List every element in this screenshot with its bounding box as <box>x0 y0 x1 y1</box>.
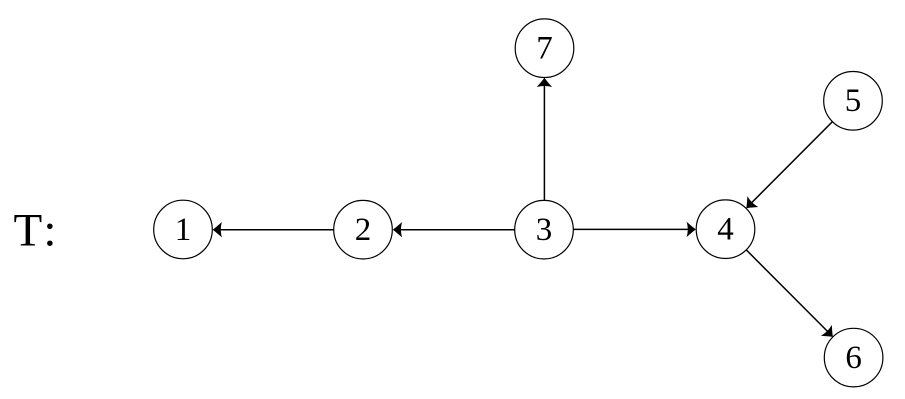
svg-text:7: 7 <box>536 31 553 67</box>
svg-text:5: 5 <box>845 83 862 119</box>
node 4 <box>696 200 755 259</box>
node 5 <box>824 72 883 131</box>
node T label <box>14 205 60 257</box>
node 7 <box>515 19 574 78</box>
svg-text:6: 6 <box>845 340 862 376</box>
node 3 <box>515 200 574 259</box>
node 1 <box>154 200 213 259</box>
wire edge 3->2 <box>393 222 515 237</box>
svg-text:T:: T: <box>14 205 60 257</box>
wire edge 5->4 <box>741 122 832 214</box>
node 2 <box>334 200 393 259</box>
svg-text:4: 4 <box>717 212 734 248</box>
svg-text:2: 2 <box>355 212 372 248</box>
wire edge 3->4 <box>574 222 696 237</box>
svg-text:1: 1 <box>175 212 192 248</box>
svg-text:3: 3 <box>536 212 553 248</box>
node 6 <box>824 328 883 387</box>
wire edge 3->7 <box>537 78 552 201</box>
wire edge 2->1 <box>213 222 334 237</box>
wire edge 4->6 <box>746 250 838 342</box>
